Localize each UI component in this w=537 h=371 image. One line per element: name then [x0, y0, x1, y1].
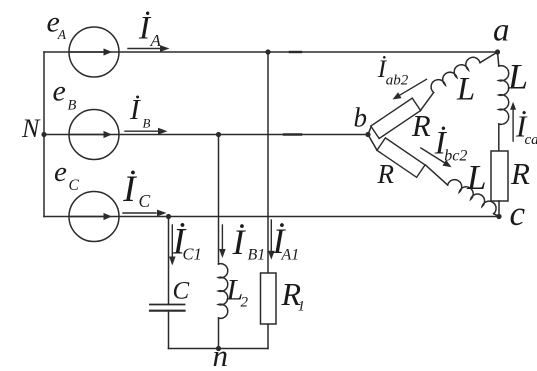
svg-text:n: n [213, 338, 229, 371]
svg-text:İab2: İab2 [377, 56, 409, 89]
source e_A arrowhead [104, 48, 113, 55]
svg-text:İbc2: İbc2 [434, 125, 468, 164]
inductor L in branch ca [499, 66, 509, 125]
source e_C internal arrow [71, 216, 104, 218]
wire branch C1 down to capacitor [168, 217, 170, 305]
arrowhead I_C [157, 210, 167, 217]
current arrow I_bc2 [421, 148, 446, 163]
arrowhead I_ca2 [510, 102, 516, 110]
wire R1 to bottom [267, 324, 269, 349]
wire bc coil to node c [494, 214, 499, 217]
capacitor C plates [150, 304, 185, 306]
wire b to bc rect [368, 135, 377, 151]
svg-text:L: L [507, 57, 528, 97]
inductor L in branch bc [448, 180, 496, 214]
source e_C circle [69, 192, 119, 242]
node N dot [41, 132, 46, 137]
svg-text:L: L [466, 158, 486, 197]
svg-text:R: R [411, 109, 431, 143]
source e_B circle [69, 110, 119, 160]
wire phase B [44, 134, 368, 136]
wire ab rect to coil [420, 92, 434, 110]
node b dot [365, 132, 370, 137]
wire ca coil to R [498, 124, 500, 151]
svg-text:N: N [21, 114, 41, 143]
current arrow I_C1 [171, 225, 173, 257]
wire phase B retouch dash [284, 133, 301, 135]
wire bottom neutral [169, 348, 269, 350]
source e_B internal arrow [71, 134, 104, 136]
svg-text:L2: L2 [226, 274, 249, 311]
svg-text:eB: eB [53, 75, 77, 114]
current arrow I_A1 [270, 220, 272, 251]
svg-text:R: R [510, 156, 530, 191]
wire phase A [44, 51, 498, 53]
node c dot [496, 214, 501, 219]
wire bc rect to coil [425, 165, 447, 185]
svg-text:b: b [354, 103, 368, 133]
svg-text:İca2: İca2 [515, 109, 537, 149]
wire capacitor to bottom [168, 311, 170, 349]
wire branch B1 down to L2 [218, 135, 220, 265]
current arrow I_A [128, 48, 161, 50]
svg-text:c: c [510, 194, 526, 233]
node n dot [216, 346, 221, 351]
arrowhead I_bc2 [443, 160, 452, 167]
node tapB dot [216, 132, 221, 137]
source e_A internal arrow [71, 51, 104, 53]
source e_A circle [69, 27, 119, 77]
current arrow I_B1 [221, 225, 223, 249]
wire ab coil to node a [480, 52, 498, 63]
svg-text:L: L [456, 71, 475, 107]
source e_B arrowhead [104, 131, 113, 138]
arrowhead I_B1 [219, 249, 226, 258]
svg-text:İC1: İC1 [172, 222, 202, 264]
current arrow I_C [123, 212, 156, 214]
svg-text:eC: eC [54, 156, 80, 194]
svg-text:R1: R1 [281, 276, 306, 315]
node a dot [495, 49, 500, 54]
wire ca R to node c [498, 201, 500, 217]
wire phase C [44, 216, 499, 218]
svg-text:R: R [377, 159, 395, 189]
svg-text:İC: İC [122, 169, 150, 211]
svg-text:İA1: İA1 [272, 221, 300, 264]
svg-text:İA: İA [138, 10, 162, 50]
resistor R in branch bc [377, 138, 425, 177]
arrowhead I_B [158, 128, 168, 135]
node tapA dot [265, 49, 270, 54]
current arrow I_ab2 [399, 79, 427, 95]
wire node a down to ca coil [498, 52, 499, 66]
arrowhead I_C1 [169, 257, 176, 266]
svg-text:İB: İB [129, 94, 151, 130]
arrowhead I_A [160, 45, 170, 52]
inductor L2 coil [219, 264, 228, 319]
node tapC dot [166, 214, 171, 219]
svg-text:İB1: İB1 [232, 222, 266, 264]
wire branch A1 down to R1 [267, 52, 269, 273]
arrowhead I_A1 [268, 251, 275, 260]
svg-text:eA: eA [47, 5, 67, 42]
resistor R in branch ab [371, 98, 421, 138]
current arrow I_ca2 [512, 110, 514, 141]
resistor R1 body [261, 273, 277, 324]
source e_C arrowhead [104, 213, 113, 220]
arrowhead I_ab2 [393, 92, 402, 99]
wire left rail N [43, 52, 45, 217]
inductor L in branch ab [431, 57, 480, 92]
resistor R in branch ca [491, 151, 508, 201]
wire L2 to bottom node n [218, 318, 220, 349]
current arrow I_B [125, 130, 158, 132]
wire b to ab rect [368, 126, 371, 134]
svg-text:C: C [173, 278, 190, 305]
wire phase A retouch dash [290, 51, 301, 53]
svg-text:a: a [493, 13, 510, 49]
